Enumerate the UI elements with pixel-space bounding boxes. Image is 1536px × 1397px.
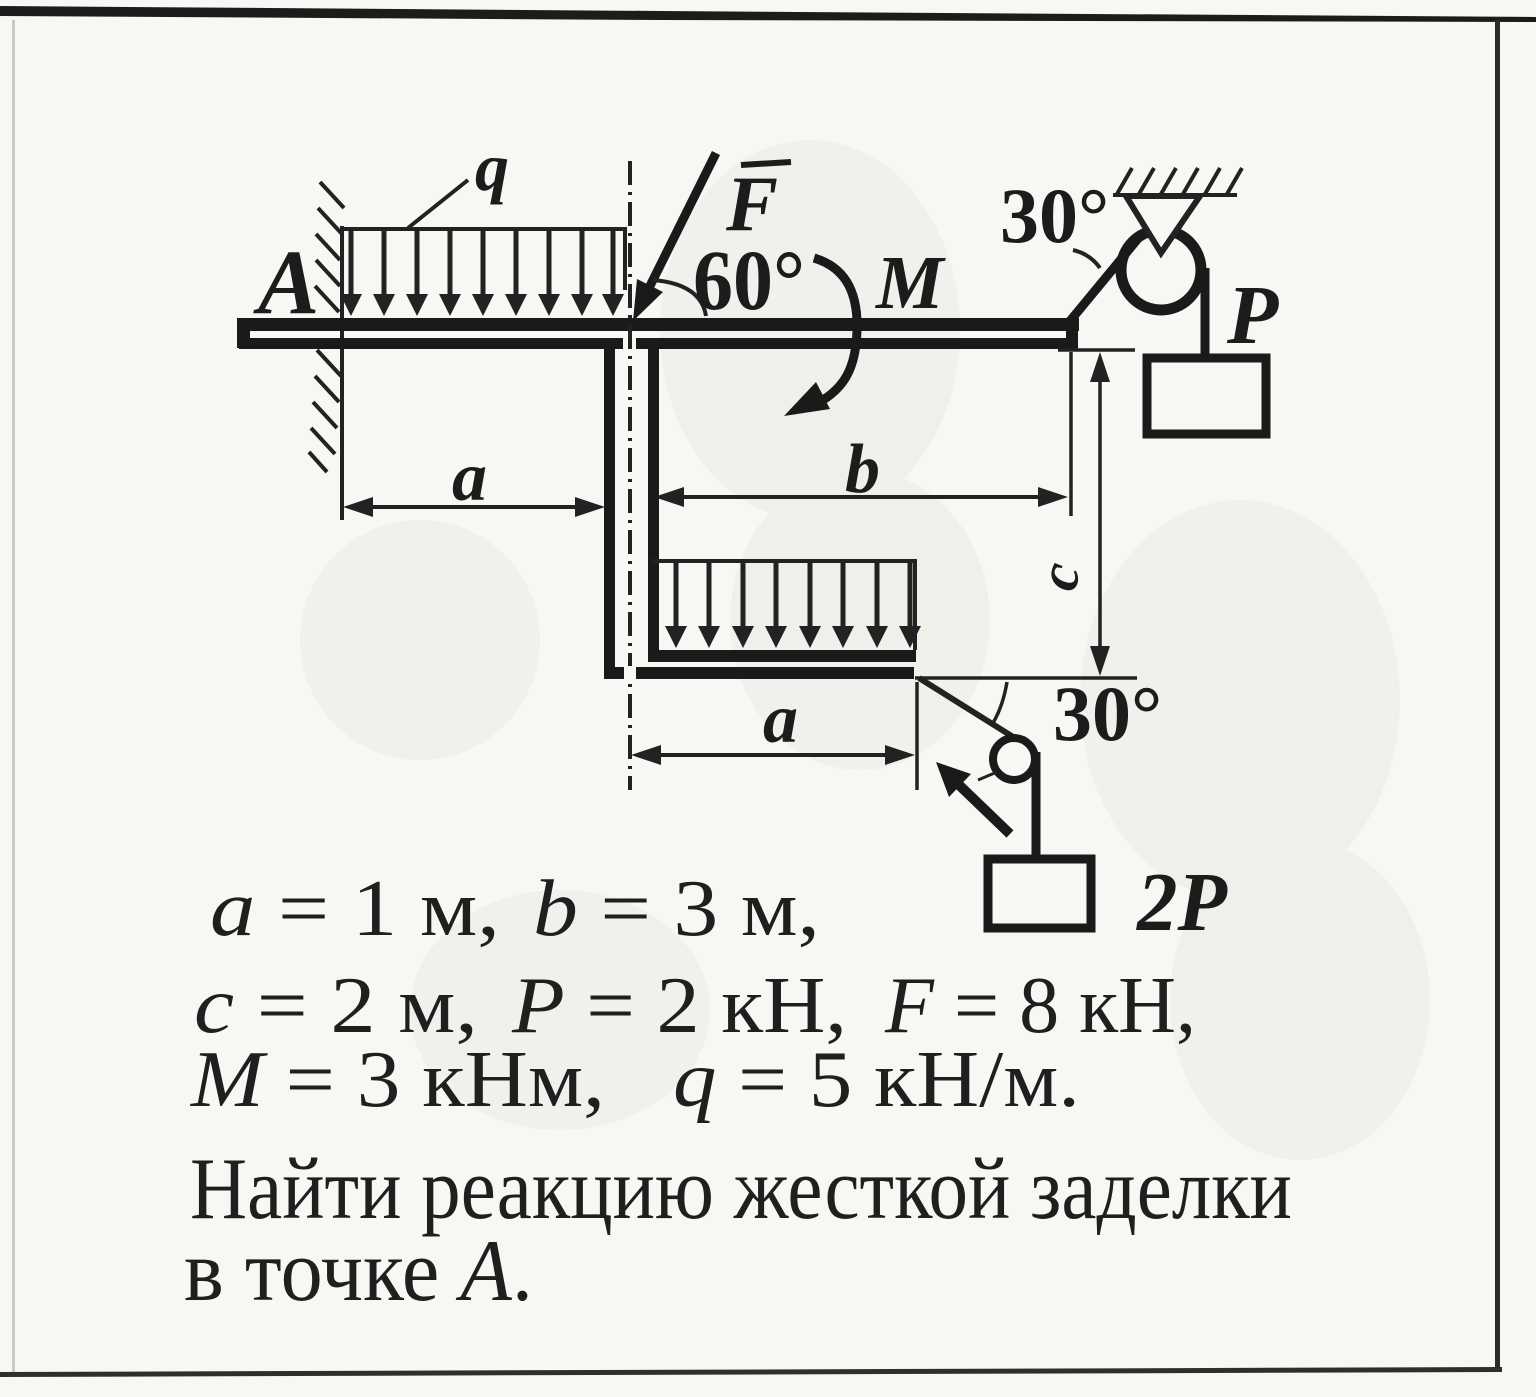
weight P box (1147, 358, 1266, 434)
beam lower parallel line (239, 338, 1067, 349)
thin rope wrap line (978, 772, 997, 780)
svg-text:P: P (1226, 269, 1279, 362)
dimension a lower (646, 753, 900, 757)
fixed support wall at A (309, 182, 344, 520)
angle arc at beam end (1073, 250, 1100, 268)
border left faint (12, 20, 15, 1372)
label q with leader (408, 180, 468, 228)
svg-text:в точке А.: в точке А. (184, 1223, 533, 1320)
svg-text:M = 3 кНм,: M = 3 кНм, (190, 1036, 605, 1124)
distributed load q2 arrows (665, 563, 921, 648)
rope right side down to weight P (1201, 268, 1210, 356)
svg-text:2P: 2P (1135, 856, 1228, 949)
distributed load q1 arrows (340, 231, 624, 316)
beam right end cap (1066, 318, 1078, 349)
svg-text:30°: 30° (1000, 172, 1109, 259)
svg-text:q: q (475, 129, 509, 205)
beam left end cap (237, 318, 250, 348)
border right (1495, 20, 1500, 1372)
rope tension arrow lower left (958, 784, 1010, 834)
svg-text:b = 3 м,: b = 3 м, (533, 865, 820, 953)
problem text block (184, 865, 1292, 1320)
svg-text:M: M (875, 241, 946, 325)
gap in lower line at axis (623, 337, 636, 350)
dimension b (670, 495, 1050, 499)
ceiling hatch support top right (1113, 168, 1242, 195)
pulley 1 bracket triangle (1126, 196, 1200, 253)
angle 60 arc (653, 280, 706, 316)
axis dash-dot centerline (628, 161, 632, 790)
vertical limb left bar (604, 349, 615, 679)
svg-text:60°: 60° (693, 232, 805, 328)
b right extension line (1069, 352, 1073, 516)
force F arrow (645, 153, 716, 296)
lower beam inner bar (648, 650, 916, 662)
distributed load q1 box (343, 229, 627, 290)
pulley 2 circle (993, 738, 1035, 780)
angle arc lower (993, 682, 1007, 723)
beam top horizontal member (237, 318, 1079, 331)
svg-text:b: b (845, 431, 880, 508)
moment M arc (812, 258, 857, 406)
lower beam right extension line (915, 676, 1137, 680)
rod at 30deg lower right (919, 678, 1018, 740)
dimension c vertical (1098, 368, 1102, 660)
vertical limb right bar (648, 349, 659, 662)
svg-text:A: A (253, 231, 319, 333)
weight 2P box (988, 859, 1091, 928)
pulley 1 circle (1121, 230, 1201, 310)
svg-text:a: a (763, 681, 798, 758)
svg-text:q = 5 кН/м.: q = 5 кН/м. (673, 1036, 1080, 1124)
scan stains (300, 140, 1430, 1160)
gap in outer bar at axis (624, 666, 636, 680)
dimension a upper (360, 505, 590, 509)
distributed load q2 box (651, 561, 917, 650)
a lower right extension (915, 682, 919, 790)
svg-text:a: a (452, 439, 487, 516)
rope down from pulley 2 (1032, 752, 1041, 858)
svg-text:30°: 30° (1053, 670, 1162, 757)
rope from beam end over pulley 1 (1070, 235, 1141, 321)
c top extension line (1058, 348, 1135, 352)
lower beam outer bar (604, 667, 914, 679)
border bottom (0, 1367, 1502, 1377)
border top (0, 6, 1536, 22)
svg-text:a = 1 м,: a = 1 м, (210, 865, 500, 953)
